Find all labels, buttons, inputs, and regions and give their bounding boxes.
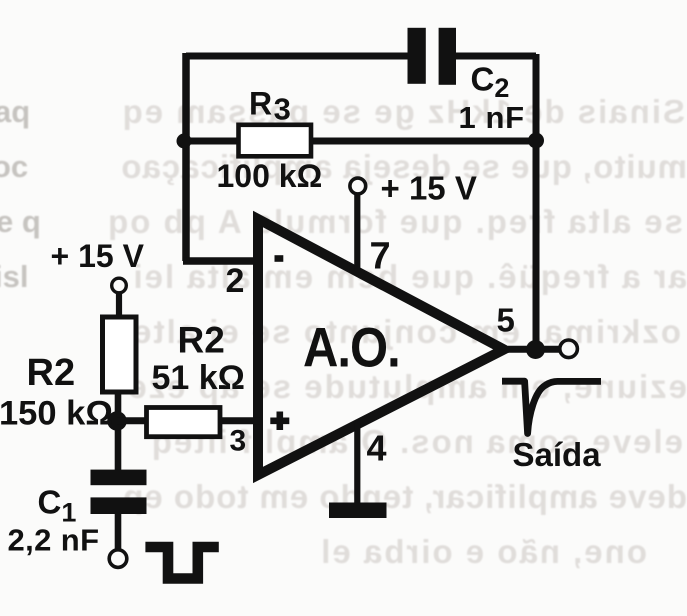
svg-text:+ 15 V: + 15 V — [381, 169, 477, 206]
svg-text:one, não e oirba el: one, não e oirba el — [319, 533, 647, 570]
resistor R2 (150k) vertical body — [103, 317, 137, 392]
wire: pin 7 supply drop — [354, 194, 360, 271]
wire: inverting input (pin 2) horizontal — [183, 257, 260, 265]
svg-text:e q: e q — [0, 204, 41, 239]
wire: top feedback, right segment from C2 to right rail — [452, 53, 536, 60]
node: output junction dot — [526, 340, 545, 359]
output spike waveform icon — [502, 381, 601, 433]
capacitor C1 plate 1 — [91, 470, 147, 486]
wire: R2 bottom through junction to C1 — [115, 392, 122, 471]
wire: right feedback rail (vertical) — [533, 54, 540, 350]
svg-text:Sinais de 1kHz ge se passam eq: Sinais de 1kHz ge se passam eq — [121, 93, 685, 130]
wire: R3 branch, left of R3 — [184, 138, 240, 145]
op-amp inverting "-" mark — [275, 255, 284, 262]
svg-text:se alta freq. que formula A pb: se alta freq. que formula A pb oq — [106, 203, 683, 240]
svg-text:+ 15 V: + 15 V — [51, 238, 145, 274]
resistor R2 (51k) horizontal body — [147, 408, 221, 437]
svg-text:R2: R2 — [27, 352, 76, 394]
resistor R3 body — [239, 125, 312, 157]
wire: output pin 5 to terminal — [508, 346, 560, 353]
op-amp U1 triangle body — [258, 219, 504, 475]
wire: pin 4 to ground — [354, 423, 360, 505]
svg-text:deve amplificar, tendo em todo: deve amplificar, tendo em todo ep — [122, 478, 687, 515]
capacitor C1 plate 2 — [91, 497, 147, 514]
node: junction of R3 branch and right rail — [528, 133, 544, 149]
wire: R3 branch, right of R3 to right rail — [310, 138, 536, 145]
wire: R2 (51k) to pin 3 — [221, 417, 261, 424]
svg-text:isl: isl — [0, 259, 28, 294]
wire: junction to R2 (51k) — [117, 417, 148, 424]
op-amp non-inverting "+" mark — [270, 412, 289, 431]
svg-text:3: 3 — [230, 425, 247, 458]
terminal: +15V supply (top, pin 7) — [350, 178, 366, 194]
svg-text:Saída: Saída — [513, 436, 602, 473]
wire: left feedback rail (vertical) — [182, 53, 190, 261]
svg-text:51 kΩ: 51 kΩ — [152, 359, 245, 397]
capacitor C2 plate 2 — [439, 28, 456, 85]
svg-text:4: 4 — [367, 428, 387, 469]
svg-text:100 kΩ: 100 kΩ — [217, 158, 323, 194]
svg-text:1 nF: 1 nF — [459, 100, 525, 135]
svg-text:oc: oc — [0, 149, 28, 184]
wire: left supply to R2 vertical — [116, 293, 122, 320]
terminal: output (Saída) — [560, 340, 578, 358]
wire: C1 to input terminal — [115, 514, 122, 550]
node: junction of R2/R2/C1 — [107, 411, 127, 431]
svg-text:A.O.: A.O. — [303, 318, 400, 379]
svg-text:aq: aq — [0, 94, 30, 129]
svg-text:R3: R3 — [249, 86, 291, 127]
wire: top feedback, left segment to C2 — [186, 53, 412, 60]
input pulse waveform icon — [145, 547, 218, 579]
background bleed-through darker fragments at left edge (decorative) — [0, 94, 41, 294]
svg-text:R2: R2 — [178, 320, 225, 361]
svg-text:2: 2 — [226, 262, 245, 300]
background bleed-through text (decorative, mirrored scan artifact) — [106, 93, 687, 570]
capacitor C2 plate 1 — [408, 28, 426, 84]
svg-text:7: 7 — [370, 236, 391, 278]
terminal: signal input — [109, 550, 127, 568]
svg-text:5: 5 — [497, 302, 515, 339]
node: junction of feedback rail and R3 branch (left) — [177, 134, 192, 149]
ground symbol (pin 4) — [329, 503, 387, 519]
svg-text:150 kΩ: 150 kΩ — [0, 395, 113, 433]
svg-text:2,2 nF: 2,2 nF — [8, 523, 100, 558]
terminal: +15V supply (left, bias) — [112, 278, 127, 293]
